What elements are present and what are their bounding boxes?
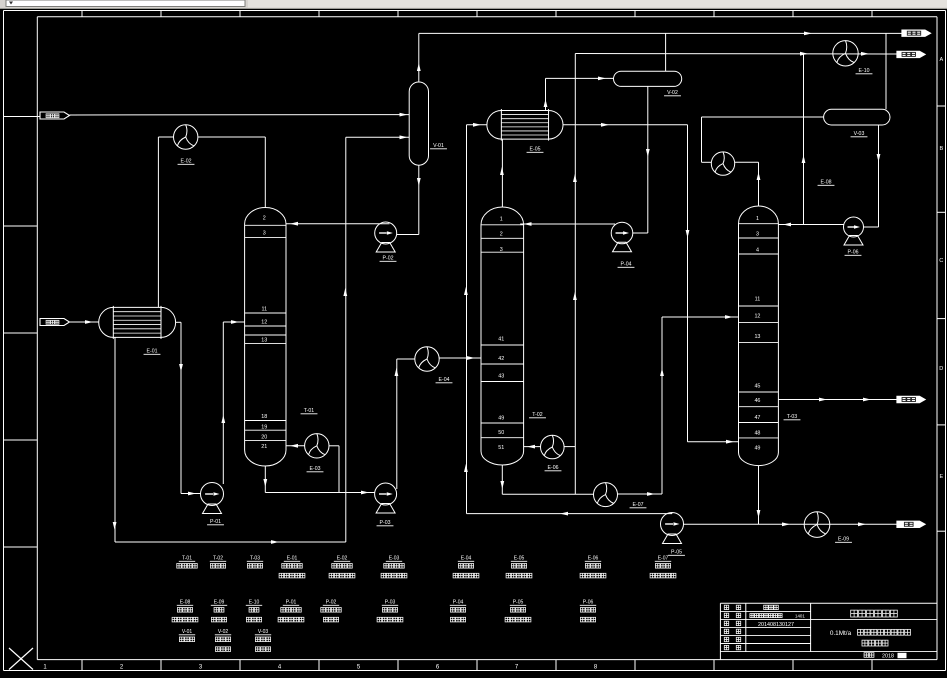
- svg-text:201408130127: 201408130127: [758, 622, 794, 628]
- wire E-08 outlet to V-03: [702, 161, 712, 163]
- wire E-04 outlet to T-02 feed tray42: [439, 357, 481, 359]
- svg-text:13: 13: [754, 334, 760, 340]
- svg-text:C: C: [939, 258, 943, 264]
- svg-text:E-02: E-02: [181, 159, 192, 165]
- svg-text:P-01: P-01: [286, 600, 297, 606]
- svg-text:47: 47: [754, 415, 760, 421]
- wire T-03 bottoms down to waste line: [758, 466, 760, 525]
- sheet inner frame: [37, 16, 937, 18]
- reboiler E-06 (T-02 bottom): [541, 435, 565, 459]
- svg-text:2: 2: [500, 232, 503, 238]
- zone tick marks right edge and zone letters: [937, 105, 946, 107]
- svg-text:T-01: T-01: [304, 408, 314, 414]
- svg-text:12: 12: [261, 320, 267, 326]
- svg-text:43: 43: [498, 374, 504, 380]
- pump P-04 T-02 reflux pump: [611, 222, 633, 244]
- svg-text:P-05: P-05: [513, 600, 524, 606]
- wire P-04 reflux to T-02 top: [520, 223, 615, 225]
- svg-text:E-03: E-03: [389, 556, 400, 562]
- wire T-03 reflux from P-06: [778, 224, 843, 226]
- svg-text:V-01: V-01: [182, 629, 193, 635]
- wire vent header to vent flag: [419, 32, 902, 34]
- svg-text:T-02: T-02: [532, 412, 542, 418]
- title block values: class: [750, 614, 782, 618]
- svg-text:11: 11: [261, 307, 267, 313]
- svg-text:D: D: [939, 366, 943, 372]
- wire E-03 riser: [338, 446, 340, 493]
- svg-text:V-02: V-02: [667, 90, 678, 96]
- stream flag vent gas (top right): [902, 30, 931, 36]
- wire V-02 to P-04 suction: [647, 86, 649, 233]
- preheater E-07 (T-03 feed): [594, 483, 618, 507]
- wire T-01 overhead vapor to E-02: [264, 137, 266, 208]
- svg-text:2: 2: [263, 216, 266, 222]
- wire P-02 reflux to T-01 top: [286, 223, 390, 225]
- svg-text:12: 12: [754, 314, 760, 320]
- wire E-06 to product riser junction: [564, 446, 575, 448]
- application toolbar strip: [0, 0, 947, 9]
- wire E-02 outlet down to E-01 shell: [158, 136, 173, 138]
- svg-text:1: 1: [500, 217, 503, 223]
- svg-text:2018: 2018: [882, 653, 894, 659]
- sheet outer border: [4, 10, 946, 12]
- column T-02 pressurized tower: [481, 207, 524, 465]
- svg-text:E-09: E-09: [214, 600, 225, 606]
- svg-text:E-03: E-03: [310, 466, 321, 472]
- svg-text:P-03: P-03: [380, 520, 391, 526]
- wire V-03 vent riser: [885, 33, 887, 109]
- column T-01 pre-rectification tower: [245, 208, 286, 466]
- svg-text:11: 11: [755, 297, 761, 303]
- svg-text:E-04: E-04: [461, 556, 472, 562]
- stream flag waste water (right): [897, 521, 925, 527]
- svg-text:B: B: [939, 146, 943, 152]
- svg-text:E-10: E-10: [249, 600, 260, 606]
- wire V-01 bottoms to P-02 suction: [418, 165, 420, 234]
- svg-text:V-01: V-01: [433, 143, 444, 149]
- wire T-02 reboiler E-06 vapor return: [524, 446, 541, 448]
- cooler E-09 (waste water): [804, 512, 830, 538]
- svg-text:P-02: P-02: [383, 256, 394, 262]
- svg-text:V-03: V-03: [854, 131, 865, 137]
- wire riser to E-05 inlet: [466, 125, 468, 514]
- svg-text:1401: 1401: [795, 614, 805, 619]
- svg-text:T-02: T-02: [213, 556, 223, 562]
- svg-text:E-08: E-08: [180, 600, 191, 606]
- wire crude methanol feed to E-01: [70, 321, 99, 323]
- svg-text:E: E: [939, 474, 943, 480]
- pump P-03 T-02 feed pump: [375, 483, 397, 505]
- vessel V-01 reflux drum (vertical): [409, 82, 428, 165]
- vessel V-02 reflux drum (horizontal): [614, 71, 682, 86]
- svg-text:49: 49: [754, 446, 760, 452]
- svg-text:20: 20: [261, 435, 267, 441]
- wire P-06 product riser: [803, 54, 805, 225]
- svg-text:50: 50: [498, 430, 504, 436]
- svg-text:42: 42: [498, 356, 504, 362]
- svg-text:13: 13: [261, 338, 267, 344]
- vessel V-03 reflux drum (horizontal): [824, 109, 890, 125]
- wire E-05 condensate to V-02: [545, 78, 547, 110]
- reboiler E-03 (T-01 bottom): [305, 434, 329, 458]
- wire P-01 discharge riser to T-01 feed tray12: [222, 322, 224, 484]
- wire product riser from T-02 bottoms junction: [574, 54, 576, 495]
- wire T-01 bottoms to P-03 and E-03 loop: [264, 466, 266, 493]
- zone tick marks left edge: [4, 225, 38, 227]
- svg-text:21: 21: [261, 444, 267, 450]
- pump P-06 T-03 reflux pump: [844, 217, 864, 237]
- wire E-01 outlet down to P-01: [176, 321, 181, 323]
- svg-text:46: 46: [754, 398, 760, 404]
- svg-text:1: 1: [756, 216, 759, 222]
- svg-text:48: 48: [754, 431, 760, 437]
- wire V-01 vent riser: [418, 33, 420, 82]
- svg-text:P-05: P-05: [671, 550, 682, 556]
- zone tick marks bottom edge and zone numbers: [81, 660, 83, 671]
- svg-text:3: 3: [500, 247, 503, 253]
- wire V-02 vent riser: [665, 33, 667, 71]
- zone tick marks top edge: [81, 11, 83, 17]
- svg-text:P-01: P-01: [210, 519, 221, 525]
- title block frame: [720, 602, 937, 604]
- wire E-05 outlet to T-03 tray48: [563, 124, 688, 126]
- svg-text:18: 18: [261, 414, 267, 420]
- pump P-05 T-03 circulation pump: [661, 513, 684, 536]
- svg-text:E-01: E-01: [287, 556, 298, 562]
- cooler E-10 (product): [833, 41, 858, 66]
- stream flag extraction-water inlet (left, to V-01): [4, 116, 41, 118]
- wire T-03 overhead vapor to E-08: [758, 162, 760, 206]
- svg-text:P-06: P-06: [583, 600, 594, 606]
- svg-text:E-08: E-08: [821, 180, 832, 186]
- svg-text:E-05: E-05: [530, 147, 541, 153]
- wire waste water line through E-09 to flag: [684, 523, 898, 525]
- svg-text:E-07: E-07: [658, 556, 669, 562]
- svg-text:3: 3: [756, 232, 759, 238]
- svg-text:E-07: E-07: [633, 502, 644, 508]
- svg-text:T-03: T-03: [250, 556, 260, 562]
- svg-text:E-05: E-05: [514, 556, 525, 562]
- wire T-03 side draw to fusel flag: [778, 399, 897, 401]
- svg-text:E-02: E-02: [337, 556, 348, 562]
- title block row labels: [724, 605, 728, 609]
- title block values: designer name: [764, 605, 779, 609]
- stream flag fusel oil side draw (right): [897, 396, 925, 402]
- svg-text:P-04: P-04: [453, 600, 464, 606]
- wire T-02 bottoms to E-07: [501, 465, 503, 494]
- wire E-03 vapor return to T-01: [286, 445, 305, 447]
- svg-text:P-04: P-04: [621, 262, 632, 268]
- wire V-03 to P-06 suction: [878, 125, 880, 227]
- wire P-03 discharge riser to E-04: [396, 359, 398, 489]
- svg-text:E-10: E-10: [859, 68, 870, 74]
- svg-text:4: 4: [756, 248, 759, 254]
- svg-text:P-03: P-03: [385, 600, 396, 606]
- column T-03 atmospheric tower: [739, 206, 779, 466]
- wire T-02 overhead vapor to E-05: [501, 139, 503, 207]
- heat-exchanger E-01 feed preheater: [99, 307, 114, 337]
- wire E-07 outlet riser to T-03 feed tray12: [618, 493, 663, 495]
- svg-text:P-02: P-02: [326, 600, 337, 606]
- svg-text:T-03: T-03: [787, 414, 797, 420]
- condenser E-02 (T-01 overhead): [174, 125, 198, 149]
- wire product header through E-10 to product flag: [575, 53, 897, 56]
- svg-text:V-03: V-03: [258, 629, 269, 635]
- wire P-05 discharge to E-05 riser: [467, 513, 673, 515]
- svg-text:A: A: [939, 57, 943, 63]
- svg-text:E-06: E-06: [548, 465, 559, 471]
- svg-text:T-01: T-01: [182, 556, 192, 562]
- svg-text:E-09: E-09: [838, 537, 849, 543]
- condenser E-08 (T-03 overhead): [711, 152, 734, 175]
- svg-text:V-02: V-02: [218, 629, 229, 635]
- wire extraction-water to V-01: [70, 114, 410, 116]
- preheater E-04 (T-02 feed): [415, 347, 439, 371]
- title block project title line2: [862, 640, 888, 646]
- title block date row: [864, 653, 874, 658]
- svg-text:0.1Mt/a: 0.1Mt/a: [830, 630, 852, 637]
- pump P-02 T-01 reflux pump: [375, 222, 397, 244]
- stream flag crude methanol feed (left): [40, 319, 70, 326]
- pump P-01 T-01 feed pump: [201, 483, 224, 506]
- svg-text:P-06: P-06: [848, 250, 859, 256]
- svg-text:E-01: E-01: [147, 349, 158, 355]
- svg-text:51: 51: [498, 445, 504, 451]
- corner X mark bottom left: [9, 648, 33, 670]
- svg-text:45: 45: [754, 384, 760, 390]
- title block university name: [851, 610, 898, 617]
- svg-text:41: 41: [498, 337, 504, 343]
- svg-text:E-04: E-04: [439, 377, 450, 383]
- svg-text:19: 19: [261, 425, 267, 431]
- svg-text:3: 3: [263, 231, 266, 237]
- wire E-01 condensate to V-01 long loop: [114, 337, 116, 542]
- stream flag refined methanol product (right): [897, 51, 925, 57]
- heat-exchanger E-05 T-02 overhead condenser: [487, 111, 501, 140]
- svg-text:E-06: E-06: [588, 556, 599, 562]
- svg-text:49: 49: [498, 416, 504, 422]
